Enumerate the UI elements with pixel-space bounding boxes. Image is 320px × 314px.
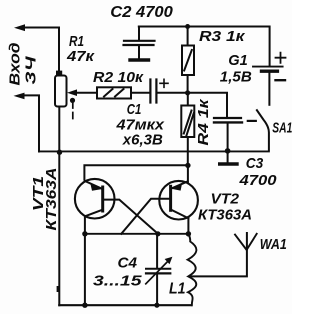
svg-text:КТ363А: КТ363А bbox=[198, 207, 252, 224]
svg-text:С1: С1 bbox=[127, 101, 142, 118]
svg-text:R2 10к: R2 10к bbox=[93, 69, 144, 86]
svg-text:L1: L1 bbox=[169, 280, 186, 297]
svg-text:Вход: Вход bbox=[7, 43, 24, 86]
svg-text:3...15: 3...15 bbox=[93, 272, 142, 289]
svg-text:C3: C3 bbox=[246, 155, 264, 172]
svg-text:SA1: SA1 bbox=[272, 120, 292, 137]
svg-text:R4 1к: R4 1к bbox=[195, 98, 212, 146]
svg-text:х6,3В: х6,3В bbox=[122, 132, 163, 149]
svg-text:G1: G1 bbox=[228, 52, 248, 69]
svg-text:С2 4700: С2 4700 bbox=[110, 4, 173, 21]
svg-text:47к: 47к bbox=[66, 48, 96, 65]
svg-text:С4: С4 bbox=[118, 255, 138, 272]
svg-text:КТ363А: КТ363А bbox=[43, 168, 60, 231]
svg-text:4700: 4700 bbox=[238, 172, 277, 189]
svg-text:VT2: VT2 bbox=[211, 191, 240, 208]
svg-text:WA1: WA1 bbox=[260, 236, 287, 253]
svg-text:ЗЧ: ЗЧ bbox=[23, 56, 40, 85]
svg-text:R3 1к: R3 1к bbox=[199, 28, 246, 45]
svg-text:1,5В: 1,5В bbox=[220, 69, 252, 86]
